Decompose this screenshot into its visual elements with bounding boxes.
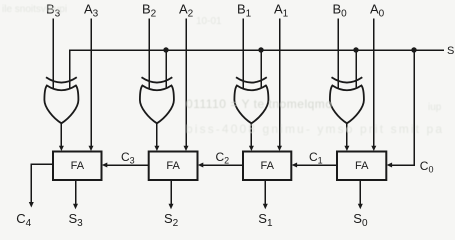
arrowhead S0 down	[358, 204, 363, 210]
arrowhead XOR2 output into FA2	[154, 146, 159, 151]
wire XOR1 output	[250, 123, 252, 146]
node S-drop junction stage1	[258, 47, 263, 52]
arrowhead S1 down	[263, 204, 268, 210]
svg-text:biss-4008 gnimu- ymso prit smi: biss-4008 gnimu- ymso prit smit pa	[186, 122, 442, 136]
wire S2 output	[170, 180, 172, 204]
wire S bus horizontal	[70, 50, 445, 88]
xor-gate X3	[44, 77, 78, 123]
wire XOR2 output	[156, 123, 158, 146]
arrowhead C3 into FA3	[102, 163, 108, 168]
node S-drop junction stage2	[163, 47, 168, 52]
svg-text:ile snoitsvláupi: ile snoitsvláupi	[2, 4, 67, 15]
wire B0 input	[337, 19, 339, 89]
wire A0 input	[373, 19, 375, 147]
full-adder FA1 box	[243, 152, 291, 181]
xor-gate X2	[140, 77, 174, 123]
arrowhead A1 into FA1	[277, 146, 282, 151]
arrowhead S3 down	[73, 204, 78, 210]
arrowhead XOR0 output into FA0	[344, 146, 349, 151]
scan bleed-through ghost text (decorative)	[2, 4, 442, 136]
arrowhead A0 into FA0	[371, 146, 376, 151]
wire S0 output	[359, 180, 361, 204]
svg-text:10-01: 10-01	[196, 16, 222, 27]
wire XOR0 output	[346, 123, 348, 146]
svg-text:FA: FA	[166, 160, 180, 172]
wire S drop to XOR2	[165, 50, 167, 88]
wire S drop to XOR1	[260, 50, 262, 88]
wire B3 input	[52, 19, 54, 89]
full-adder FA3 box	[53, 152, 102, 181]
arrowhead A2 into FA2	[184, 146, 189, 151]
wire C2 carry	[203, 164, 244, 166]
wire C4 carry out	[31, 164, 53, 203]
arrowhead XOR1 output into FA1	[249, 146, 254, 151]
wire A1 input	[279, 19, 281, 147]
svg-text:FA: FA	[71, 160, 85, 172]
wire B1 input	[242, 19, 244, 89]
arrowhead C4 down	[29, 202, 34, 208]
wire S3 output	[75, 180, 77, 204]
wire A2 input	[185, 19, 187, 147]
svg-text:S: S	[447, 45, 454, 57]
wire XOR3 output	[60, 123, 62, 146]
xor-gate X1	[234, 77, 268, 123]
svg-text:011110 = Y te tnomelqmo: 011110 = Y te tnomelqmo	[186, 97, 332, 111]
svg-text:FA: FA	[261, 160, 275, 172]
wire C0 from S bus	[391, 50, 414, 165]
wire B2 input	[148, 19, 150, 89]
arrowhead S2 down	[169, 204, 174, 210]
wire C3 carry	[107, 164, 149, 166]
full-adder FA0 box	[337, 152, 386, 181]
xor-gate X0	[330, 77, 364, 123]
svg-text:iup: iup	[428, 102, 442, 113]
arrowhead C1 into FA1	[292, 163, 298, 168]
wire S1 output	[264, 180, 266, 204]
node S-drop junction stage0	[353, 47, 358, 52]
arrowhead C2 into FA2	[198, 163, 204, 168]
wire C1 carry	[297, 164, 338, 166]
arrowhead A3 into FA3	[89, 146, 94, 151]
arrowhead XOR3 output into FA3	[59, 146, 64, 151]
wire A3 input	[90, 19, 92, 147]
full-adder FA2 box	[149, 152, 198, 181]
node C0 junction	[411, 47, 416, 52]
arrowhead C0 into FA0	[387, 163, 393, 168]
wire S drop to XOR0	[355, 50, 357, 88]
svg-text:FA: FA	[355, 160, 369, 172]
